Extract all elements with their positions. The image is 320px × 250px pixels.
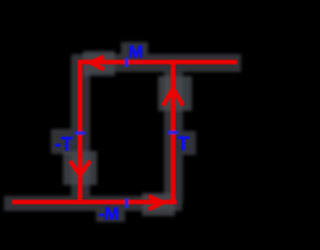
halo bottom arrow bbox=[142, 193, 175, 216]
tick on left line (at -T) bbox=[75, 131, 86, 135]
halo right line bbox=[164, 56, 183, 204]
halo bottom line bbox=[4, 196, 182, 211]
arrow right (on bottom line) bbox=[149, 196, 163, 210]
arrow down (on left line) bbox=[70, 161, 90, 175]
svg-text:T: T bbox=[178, 134, 190, 155]
wire right line bbox=[171, 60, 176, 204]
tick on bottom line (at -M) bbox=[125, 199, 129, 209]
halo top line bbox=[72, 54, 241, 72]
halo -M label bbox=[96, 201, 125, 222]
tick on top line (at M) bbox=[125, 58, 129, 68]
artifact halo layer bbox=[4, 42, 241, 222]
brighter halos near arrows bbox=[63, 51, 192, 216]
halo -T label bbox=[51, 129, 76, 154]
halo M label bbox=[121, 42, 148, 61]
wire top line bbox=[78, 60, 237, 65]
svg-text:-T: -T bbox=[55, 135, 73, 156]
halo top arrow bbox=[83, 51, 115, 76]
halo left line bbox=[71, 56, 90, 204]
halo T label bbox=[174, 131, 196, 155]
halo down arrow bbox=[63, 151, 97, 185]
svg-text:-M: -M bbox=[99, 204, 119, 224]
arrow left (on top line) bbox=[91, 57, 105, 70]
svg-text:M: M bbox=[129, 42, 144, 62]
arrow up (on right line) bbox=[163, 89, 183, 106]
tick on right line (at T) bbox=[168, 131, 179, 135]
halo up arrow bbox=[158, 76, 192, 111]
wire bottom line bbox=[12, 200, 177, 205]
wire left line bbox=[78, 60, 83, 204]
